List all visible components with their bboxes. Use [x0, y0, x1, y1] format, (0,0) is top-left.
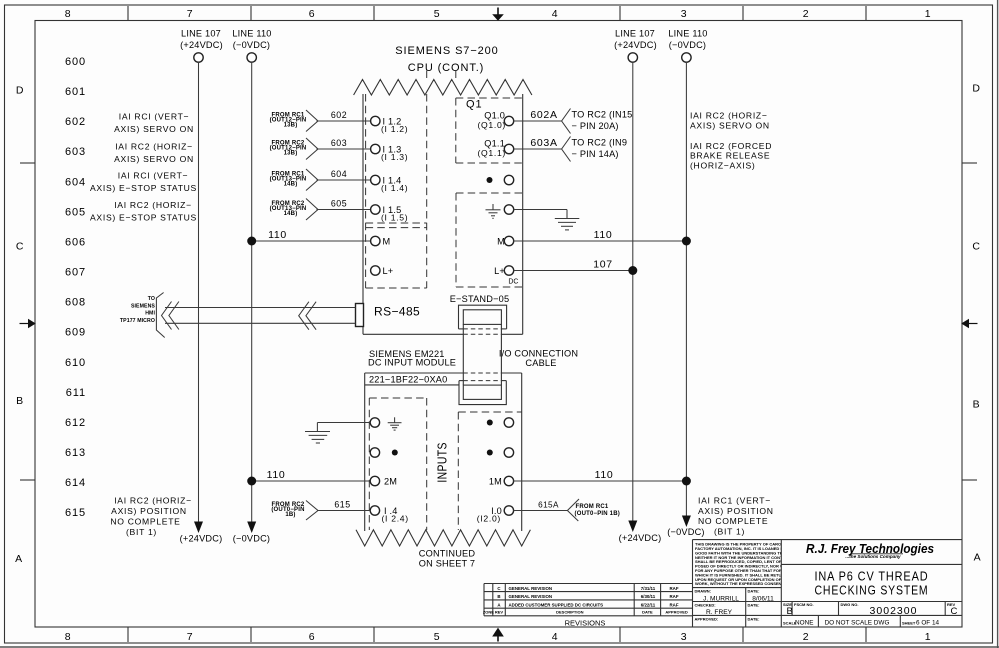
wire 107 row 607	[513, 259, 632, 271]
revision row C	[497, 586, 678, 591]
svg-text:IAI RC1 (VERT−: IAI RC1 (VERT−	[698, 496, 771, 506]
svg-text:1: 1	[925, 631, 932, 643]
annotation row 615 right: IAI RC1 (VERT-AXIS) POSITION NO COMPLETE (BIT 1)	[698, 496, 774, 537]
svg-text:(BIT 1): (BIT 1)	[714, 527, 745, 537]
annotation rows 602-603 right: IAI RC2 (HORIZ-AXIS) SERVO ON	[690, 111, 770, 131]
wire 110 row 614 right	[513, 469, 686, 481]
svg-text:SIEMENS: SIEMENS	[131, 303, 155, 309]
svg-text:DRAWN:: DRAWN:	[695, 589, 711, 594]
svg-text:B: B	[973, 399, 981, 411]
svg-text:C: C	[16, 241, 24, 253]
svg-text:RAF: RAF	[669, 586, 678, 591]
svg-text:E−STAND−05: E−STAND−05	[450, 294, 510, 304]
svg-text:REVISIONS: REVISIONS	[565, 618, 606, 627]
svg-text:(BIT 1): (BIT 1)	[126, 527, 157, 537]
terminal I.0 (I2.0)	[477, 506, 514, 524]
EM221 right terminal pair row 612	[487, 418, 514, 427]
svg-text:IAI RC2 (HORIZ−: IAI RC2 (HORIZ−	[690, 111, 768, 121]
svg-text:LINE 107: LINE 107	[615, 29, 655, 39]
svg-text:J. MURRILL: J. MURRILL	[703, 595, 739, 602]
svg-text:AXIS) SERVO ON: AXIS) SERVO ON	[114, 124, 194, 134]
svg-text:CPU (CONT.): CPU (CONT.)	[408, 62, 485, 74]
svg-text:615A: 615A	[538, 501, 559, 510]
svg-text:D: D	[16, 85, 24, 97]
svg-text:107: 107	[593, 259, 613, 271]
PLC module SIEMENS S7-200 CPU	[354, 45, 532, 334]
svg-text:HMI: HMI	[145, 311, 155, 317]
svg-text:I/O CONNECTION: I/O CONNECTION	[499, 349, 578, 359]
svg-text:NO COMPLETE: NO COMPLETE	[698, 516, 768, 526]
svg-text:8: 8	[65, 8, 72, 20]
svg-text:SHEET: SHEET	[902, 620, 916, 625]
svg-text:CHECKED:: CHECKED:	[695, 602, 716, 607]
RS-485 cable wires to HMI	[165, 308, 356, 324]
svg-text:RS−485: RS−485	[374, 305, 420, 319]
junction dot LINE110 row 606	[247, 237, 256, 246]
wire 110 row 614 left	[252, 469, 371, 481]
svg-text:WORK, WITHOUT THE EXPRESSED CO: WORK, WITHOUT THE EXPRESSED CONSENT OF	[695, 581, 791, 586]
svg-text:603: 603	[65, 146, 86, 158]
svg-text:A: A	[974, 552, 982, 564]
svg-text:FSCM NO.: FSCM NO.	[794, 602, 814, 607]
svg-text:3: 3	[681, 8, 688, 20]
svg-text:(−0VDC): (−0VDC)	[233, 534, 270, 544]
svg-text:IAI RC2 (FORCED: IAI RC2 (FORCED	[690, 141, 772, 151]
svg-text:(−0VDC): (−0VDC)	[669, 40, 706, 50]
terminal I1.5	[371, 205, 409, 223]
svg-text:DWG NO.: DWG NO.	[841, 602, 859, 607]
cable bracket to Siemens HMI TP177 Micro	[120, 293, 179, 338]
svg-text:614: 614	[65, 477, 86, 489]
svg-text:8: 8	[65, 631, 72, 643]
svg-text:NONE: NONE	[795, 620, 813, 627]
svg-text:3002300: 3002300	[870, 605, 918, 617]
svg-text:(I2.0): (I2.0)	[477, 514, 501, 524]
svg-text:GENERAL REVISION: GENERAL REVISION	[509, 586, 553, 591]
svg-text:606: 606	[65, 237, 86, 249]
svg-text:602: 602	[65, 116, 86, 128]
svg-text:4: 4	[552, 631, 559, 643]
svg-text:(+24VDC): (+24VDC)	[180, 40, 223, 50]
svg-text:FROM RC1: FROM RC1	[576, 504, 609, 510]
svg-text:612: 612	[65, 417, 86, 429]
terminal I.4 (I 2.4)	[370, 506, 409, 524]
svg-text:(−0VDC): (−0VDC)	[233, 40, 270, 50]
svg-text:(+24VDC): (+24VDC)	[614, 40, 657, 50]
svg-text:ZONE: ZONE	[483, 610, 494, 615]
junction dot LINE110 right row 606	[682, 237, 691, 246]
annotation row 603 left: IAI RC2 (HORIZ-AXIS) SERVO ON	[114, 142, 194, 165]
svg-text:110: 110	[268, 229, 287, 241]
svg-text:(Q1.1): (Q1.1)	[477, 148, 506, 158]
svg-text:B: B	[497, 594, 500, 599]
connector E-STAND-05 (upper)	[450, 294, 510, 329]
svg-text:3: 3	[681, 631, 688, 643]
svg-text:BRAKE RELEASE: BRAKE RELEASE	[690, 151, 770, 161]
terminal I1.2	[371, 116, 409, 134]
svg-text:603: 603	[331, 138, 347, 148]
RS-485 port connector on CPU	[356, 304, 421, 327]
svg-text:INPUTS: INPUTS	[435, 442, 449, 483]
annotation row 602 left: IAI RCI (VERT-AXIS) SERVO ON	[114, 112, 194, 135]
svg-text:608: 608	[65, 297, 86, 309]
svg-text:IAI RC2 (HORIZ−: IAI RC2 (HORIZ−	[115, 142, 193, 152]
svg-text:13B): 13B)	[284, 123, 298, 129]
svg-text:RAF: RAF	[669, 602, 678, 607]
svg-text:DC: DC	[508, 279, 518, 286]
svg-text:604: 604	[65, 176, 86, 188]
connector E-STAND-05 (lower)	[459, 381, 506, 405]
title block	[693, 540, 963, 627]
svg-text:DATE:: DATE:	[748, 616, 760, 621]
svg-text:C: C	[951, 606, 958, 617]
svg-text:6 OF 14: 6 OF 14	[916, 620, 940, 627]
svg-text:LINE 110: LINE 110	[668, 29, 707, 39]
CPU output group Q1 (dashed)	[456, 98, 523, 163]
svg-text:TO: TO	[148, 296, 155, 302]
svg-text:DATE:: DATE:	[748, 602, 760, 607]
svg-text:605: 605	[331, 199, 347, 209]
svg-text:DO NOT SCALE DWG: DO NOT SCALE DWG	[825, 620, 890, 627]
revisions table	[484, 584, 693, 616]
svg-text:− PIN 14A): − PIN 14A)	[572, 149, 619, 159]
svg-text:615: 615	[334, 500, 350, 510]
svg-text:C: C	[972, 241, 980, 253]
svg-text:CHECKING SYSTEM: CHECKING SYSTEM	[815, 584, 929, 598]
svg-text:605: 605	[65, 206, 86, 218]
svg-text:Q1: Q1	[466, 99, 482, 111]
junction dot LINE110 left row 614	[247, 477, 256, 486]
terminal I1.3	[371, 144, 409, 162]
EM221 right terminal pair row 613	[487, 448, 514, 457]
svg-text:604: 604	[331, 169, 347, 179]
svg-text:221−1BF22−0XA0: 221−1BF22−0XA0	[369, 374, 447, 384]
svg-text:ON SHEET 7: ON SHEET 7	[419, 559, 475, 569]
svg-text:− PIN 20A): − PIN 20A)	[572, 121, 619, 131]
terminal 1M	[489, 476, 514, 486]
CPU DC group (dashed)	[456, 193, 523, 287]
svg-text:GENERAL REVISION: GENERAL REVISION	[509, 594, 553, 599]
svg-text:A: A	[15, 553, 23, 565]
svg-text:7: 7	[187, 631, 194, 643]
svg-text:1: 1	[925, 8, 932, 20]
svg-text:NO COMPLETE: NO COMPLETE	[110, 517, 180, 527]
svg-text:RAF: RAF	[669, 594, 678, 599]
annotation right: IAI RC2 (FORCED BRAKE RELEASE (HORIZ-AXIS)	[690, 141, 772, 170]
wire 603A with off-page destination TO RC2 (IN9 - PIN 14A)	[513, 137, 627, 162]
svg-text:14B): 14B)	[284, 211, 298, 217]
wire from CPU ground terminal to earth ground	[513, 210, 567, 219]
earth ground symbol (CPU)	[555, 219, 580, 230]
svg-text:D: D	[972, 83, 980, 95]
junction dot LINE107 right row 607	[628, 266, 637, 275]
svg-text:5: 5	[434, 631, 441, 643]
svg-text:2: 2	[803, 8, 810, 20]
EM221 left terminal group (dashed)	[369, 398, 426, 530]
annotation row 615 left: IAI RC2 (HORIZ-AXIS) POSITION NO COMPLETE (BIT 1)	[110, 496, 191, 538]
terminal L+ (CPU right)	[494, 266, 514, 276]
svg-text:7/31/11: 7/31/11	[641, 586, 656, 591]
svg-text:600: 600	[65, 56, 86, 68]
line number column 600-615	[65, 56, 86, 519]
revision row A	[497, 602, 678, 607]
svg-text:(−0VDC): (−0VDC)	[667, 527, 704, 537]
svg-text:(HORIZ−AXIS): (HORIZ−AXIS)	[690, 160, 755, 170]
svg-text:IAI RC2 (HORIZ−: IAI RC2 (HORIZ−	[114, 496, 192, 506]
svg-text:...the Solutions Company: ...the Solutions Company	[845, 554, 901, 559]
svg-text:4: 4	[552, 8, 559, 20]
svg-text:DC INPUT MODULE: DC INPUT MODULE	[368, 358, 456, 368]
junction dot LINE110 right row 614	[682, 477, 691, 486]
svg-text:CABLE: CABLE	[525, 358, 556, 368]
svg-text:110: 110	[595, 469, 614, 481]
wire 603 with off-page source FROM RC2 (OUT12-PIN 13B)	[270, 138, 371, 160]
wire from EM221 ground terminal to earth ground	[317, 423, 371, 432]
company name R.J. Frey Technologies	[806, 541, 934, 559]
svg-text:6: 6	[309, 631, 316, 643]
terminal 2M	[370, 476, 397, 486]
EM221 ground terminal row 612 with internal ground glyph	[370, 417, 401, 430]
wire 615 with off-page source FROM RC2 (OUT0-PIN 1B)	[271, 500, 370, 521]
svg-text:L+: L+	[383, 266, 394, 276]
svg-text:(+24VDC): (+24VDC)	[619, 533, 662, 543]
power rail LINE 110 right (-0VDC)	[667, 29, 707, 538]
drawn / checked / approved cells	[695, 589, 775, 622]
wire 602 with off-page source FROM RC1 (OUT12-PIN 13B)	[270, 110, 371, 132]
svg-text:(OUT0−PIN 1B): (OUT0−PIN 1B)	[575, 511, 620, 517]
svg-text:AXIS) POSITION: AXIS) POSITION	[111, 506, 187, 516]
svg-text:13B): 13B)	[284, 151, 298, 157]
cable break chevrons mid RS-485	[299, 302, 316, 330]
svg-text:AXIS) POSITION: AXIS) POSITION	[698, 506, 774, 516]
EM221 right terminal group (dashed)	[458, 412, 521, 530]
wire 110 row 606 to CPU M	[252, 229, 371, 241]
terminal M (CPU left)	[371, 236, 391, 246]
svg-text:1M: 1M	[489, 477, 502, 487]
svg-text:2: 2	[803, 631, 810, 643]
svg-text:LINE 110: LINE 110	[232, 29, 271, 39]
terminal M (CPU right)	[497, 236, 514, 246]
wire 602A with off-page destination TO RC2 (IN15 - PIN 20A)	[513, 109, 632, 134]
svg-text:602: 602	[331, 110, 347, 120]
terminal I1.4	[371, 175, 409, 193]
svg-text:(I 1.4): (I 1.4)	[381, 183, 408, 193]
wire 605 with off-page source FROM RC2 (OUT13-PIN 14B)	[270, 199, 371, 221]
svg-text:602A: 602A	[530, 109, 557, 121]
svg-text:601: 601	[65, 86, 86, 98]
svg-text:110: 110	[594, 229, 613, 241]
svg-text:TO RC2 (IN15: TO RC2 (IN15	[572, 110, 633, 120]
svg-text:AXIS) E−STOP STATUS: AXIS) E−STOP STATUS	[90, 183, 197, 193]
wire 615A with off-page source FROM RC1 (OUT0-PIN 1B)	[513, 499, 620, 521]
revision row B	[497, 594, 678, 599]
svg-text:(I 1.5): (I 1.5)	[381, 213, 408, 223]
svg-text:DESCRIPTION: DESCRIPTION	[556, 610, 583, 615]
svg-text:5: 5	[434, 8, 441, 20]
svg-text:CONTINUED: CONTINUED	[419, 549, 476, 559]
CPU input group (dashed)	[366, 71, 456, 289]
power rail LINE 110 left (-0VDC)	[232, 29, 271, 544]
svg-text:6: 6	[309, 8, 316, 20]
I/O connection cable	[463, 324, 578, 385]
svg-text:AXIS) E−STOP STATUS: AXIS) E−STOP STATUS	[90, 213, 197, 223]
svg-text:REV: REV	[495, 610, 504, 615]
svg-text:(+24VDC): (+24VDC)	[180, 534, 223, 544]
size / fscm / dwg no / rev cells	[783, 602, 958, 617]
svg-text:613: 613	[65, 447, 86, 459]
earth ground symbol (EM221)	[305, 432, 330, 444]
svg-text:8/06/11: 8/06/11	[752, 595, 774, 602]
svg-text:AXIS) SERVO ON: AXIS) SERVO ON	[114, 154, 194, 164]
svg-text:7: 7	[187, 8, 194, 20]
svg-text:603A: 603A	[530, 137, 557, 149]
revisions header row	[483, 610, 688, 615]
I/O module SIEMENS EM221 DC INPUT MODULE	[356, 349, 530, 569]
svg-text:14B): 14B)	[284, 182, 298, 188]
svg-text:L+: L+	[494, 266, 505, 276]
svg-text:(I 2.4): (I 2.4)	[382, 514, 409, 524]
svg-text:INA P6 CV THREAD: INA P6 CV THREAD	[815, 570, 929, 584]
svg-text:DATE:: DATE:	[748, 589, 760, 594]
svg-text:2M: 2M	[384, 477, 397, 487]
svg-text:SIEMENS S7−200: SIEMENS S7−200	[395, 45, 498, 57]
svg-text:615: 615	[65, 507, 86, 519]
svg-text:609: 609	[65, 327, 86, 339]
svg-text:LINE 107: LINE 107	[181, 29, 221, 39]
wire 604 with off-page source FROM RC1 (OUT13-PIN 14B)	[270, 169, 371, 191]
svg-text:611: 611	[66, 387, 86, 399]
svg-text:(I 1.2): (I 1.2)	[381, 124, 408, 134]
svg-text:APPROVED:: APPROVED:	[695, 616, 719, 621]
svg-text:B: B	[787, 606, 793, 617]
svg-text:(Q1.0): (Q1.0)	[477, 120, 506, 130]
svg-text:110: 110	[267, 469, 286, 481]
svg-text:IAI RCI (VERT−: IAI RCI (VERT−	[119, 112, 190, 122]
scale / sheet row	[783, 620, 940, 627]
svg-text:6/30/11: 6/30/11	[641, 594, 656, 599]
EM221 left terminal pair row 613	[370, 448, 398, 457]
svg-text:607: 607	[65, 267, 86, 279]
svg-text:TP177 MICRO: TP177 MICRO	[120, 318, 155, 324]
wire 110 row 606 right	[513, 229, 686, 241]
CPU chassis ground terminal with internal ground glyph	[486, 204, 514, 218]
svg-text:1B): 1B)	[285, 512, 295, 518]
svg-text:IAI RCI (VERT−: IAI RCI (VERT−	[118, 171, 189, 181]
svg-text:6/22/11: 6/22/11	[641, 602, 656, 607]
power rail LINE 107 left (+24VDC)	[180, 29, 223, 544]
svg-text:IAI RC2 (HORIZ−: IAI RC2 (HORIZ−	[114, 200, 192, 210]
drawing title INA P6 CV THREAD CHECKING SYSTEM	[815, 570, 929, 598]
svg-text:TO RC2 (IN9: TO RC2 (IN9	[572, 138, 628, 148]
svg-text:APPROVED: APPROVED	[665, 610, 688, 615]
svg-text:ADDED CUSTOMER SUPPLIED DC: ADDED CUSTOMER SUPPLIED DC CIRCUITS	[509, 602, 604, 607]
power rail LINE 107 right (+24VDC)	[614, 29, 661, 544]
terminal Q1.0	[477, 111, 513, 130]
svg-text:AXIS) SERVO ON: AXIS) SERVO ON	[690, 121, 770, 131]
svg-text:R. FREY: R. FREY	[706, 609, 733, 616]
svg-text:B: B	[16, 395, 24, 407]
annotation row 604 left: IAI RCI (VERT-AXIS) E-STOP STATUS	[90, 171, 197, 194]
terminal Q1.1	[477, 139, 513, 158]
terminal L+ (CPU left)	[371, 266, 394, 276]
svg-text:(I 1.3): (I 1.3)	[381, 152, 408, 162]
annotation row 605 left: IAI RC2 (HORIZ-AXIS) E-STOP STATUS	[90, 200, 197, 223]
svg-text:610: 610	[65, 357, 86, 369]
svg-text:DATE: DATE	[642, 610, 653, 615]
svg-text:M: M	[383, 237, 391, 247]
unused output terminal pair row 604	[487, 175, 514, 184]
